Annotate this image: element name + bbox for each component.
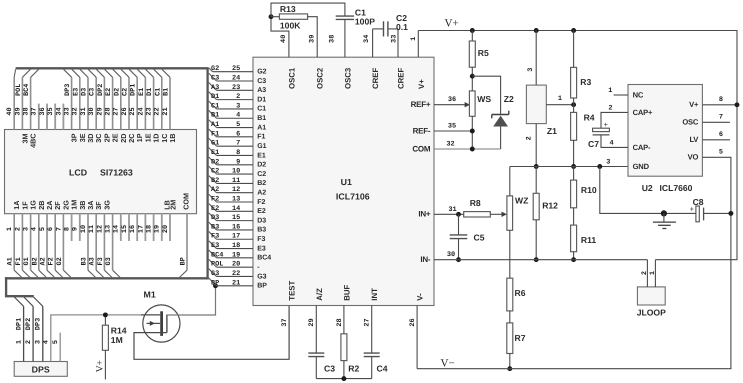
svg-text:37: 37 xyxy=(281,318,289,326)
svg-text:16: 16 xyxy=(129,225,137,233)
wire U1 pin 24 (C3) xyxy=(209,73,217,81)
svg-text:BP: BP xyxy=(180,257,188,265)
svg-text:R13: R13 xyxy=(280,4,296,14)
svg-text:OSC3: OSC3 xyxy=(343,67,352,89)
svg-text:29: 29 xyxy=(96,107,104,115)
svg-text:G3: G3 xyxy=(211,270,219,278)
junction ground tee xyxy=(661,210,667,216)
wire U2 NC pin 1 stub xyxy=(614,94,628,96)
junction R14 top xyxy=(103,312,108,317)
svg-text:B2: B2 xyxy=(211,177,219,185)
resistor R2 xyxy=(343,306,345,334)
junction V+ rail R5 xyxy=(470,28,475,33)
svg-text:DPS: DPS xyxy=(32,364,50,374)
svg-text:9: 9 xyxy=(72,227,80,231)
svg-text:DP1: DP1 xyxy=(15,318,23,330)
svg-text:R14: R14 xyxy=(111,325,127,335)
junction V+ rail R3 xyxy=(571,28,576,33)
svg-text:C3: C3 xyxy=(211,75,219,83)
wire U2 LV pin 6 stub xyxy=(702,139,730,141)
LCD top pin 34 wire xyxy=(62,104,64,130)
svg-text:15: 15 xyxy=(121,225,129,233)
wire JLOOP pin 1 xyxy=(654,260,656,287)
junction BP node xyxy=(213,283,218,288)
svg-text:8: 8 xyxy=(64,227,72,231)
svg-text:A2: A2 xyxy=(257,190,266,197)
svg-text:C5: C5 xyxy=(474,233,485,243)
svg-text:F1: F1 xyxy=(211,130,219,138)
wire U1 pin 19 (BC4) xyxy=(209,250,217,258)
svg-text:BP: BP xyxy=(257,283,267,290)
resistor R14 xyxy=(104,315,106,325)
LCD bottom pin 19 wire xyxy=(161,214,163,241)
svg-text:9: 9 xyxy=(236,158,240,166)
svg-text:D2: D2 xyxy=(257,162,266,169)
LCD bottom pin 3 wire xyxy=(30,214,32,271)
wire DPS pin 1 (DP1) xyxy=(14,297,23,306)
svg-text:F2: F2 xyxy=(48,257,56,265)
wire R13 top loop xyxy=(271,3,345,17)
svg-text:BC4: BC4 xyxy=(23,84,31,96)
svg-text:20: 20 xyxy=(232,261,240,269)
LCD bottom pin 7 wire xyxy=(62,214,64,271)
LCD top pin 22 wire xyxy=(161,77,163,129)
wire U2 V+ pin 8 xyxy=(702,104,737,106)
LCD bottom pin 5 wire xyxy=(46,214,48,271)
svg-text:30: 30 xyxy=(447,251,455,259)
wire U2 CAP+ pin 2 xyxy=(601,112,628,128)
svg-text:6: 6 xyxy=(236,130,240,138)
svg-text:4: 4 xyxy=(31,227,39,231)
junction R4 bottom / GND row xyxy=(571,164,576,169)
svg-text:13: 13 xyxy=(105,225,113,233)
svg-text:8: 8 xyxy=(236,149,240,157)
svg-text:31: 31 xyxy=(80,107,88,115)
LCD top pin 26 wire xyxy=(128,77,130,129)
DPS connector xyxy=(14,362,67,377)
capacitor C8 xyxy=(696,206,699,222)
junction V+ rail / U2 pin8 xyxy=(735,102,740,107)
svg-text:F2: F2 xyxy=(257,199,265,206)
svg-text:5: 5 xyxy=(52,340,60,344)
svg-text:37: 37 xyxy=(31,107,39,115)
svg-text:3: 3 xyxy=(236,102,240,110)
wire U1 pin 18 (E3) xyxy=(209,241,217,249)
svg-text:28: 28 xyxy=(105,107,113,115)
svg-text:IN+: IN+ xyxy=(418,210,431,219)
bus: LCD bottom signal bus xyxy=(5,277,209,279)
LCD bottom pin 4 wire xyxy=(38,214,40,271)
svg-text:VO: VO xyxy=(688,153,699,162)
wire IN+ pin 31 xyxy=(434,213,464,215)
svg-text:R11: R11 xyxy=(581,235,597,245)
svg-text:REF+: REF+ xyxy=(411,100,431,109)
svg-text:34: 34 xyxy=(363,35,371,43)
svg-text:38: 38 xyxy=(23,107,31,115)
wire U1 pin 11 (B2) xyxy=(209,176,217,184)
svg-text:7: 7 xyxy=(236,140,240,148)
svg-text:CAP-: CAP- xyxy=(633,143,651,152)
junction R5/WS/Z2 xyxy=(470,74,475,79)
svg-text:23: 23 xyxy=(232,84,240,92)
resistor R13 xyxy=(271,16,279,18)
wire M1 drain to BP xyxy=(167,286,216,315)
power rail V- bottom xyxy=(417,213,731,368)
LCD top pin 28 wire xyxy=(112,77,114,129)
svg-text:F3: F3 xyxy=(97,257,105,265)
svg-text:C1: C1 xyxy=(257,106,266,113)
bus: LCD top signal bus xyxy=(16,67,208,69)
junction C3 R2 C4 xyxy=(341,376,346,381)
junction C8 / VO rail xyxy=(728,211,733,216)
wire U1 A/Z pin 29 xyxy=(315,306,317,354)
wire Z1 pin 1 xyxy=(546,104,573,106)
svg-text:B3: B3 xyxy=(211,223,219,231)
resistor R8 xyxy=(464,212,491,217)
svg-text:CAP+: CAP+ xyxy=(633,108,653,117)
wire DPS pin 5 stub xyxy=(59,333,61,362)
svg-text:Z2: Z2 xyxy=(504,94,514,104)
LCD top pin 40 wire xyxy=(13,77,15,129)
svg-text:21: 21 xyxy=(162,107,170,115)
LCD bottom pin 16 wire xyxy=(136,214,138,241)
svg-text:F2: F2 xyxy=(211,196,219,204)
svg-text:C3: C3 xyxy=(257,78,266,85)
svg-text:C2: C2 xyxy=(122,88,130,96)
svg-text:3: 3 xyxy=(23,227,31,231)
svg-text:R2: R2 xyxy=(348,364,359,374)
svg-text:1: 1 xyxy=(649,271,657,275)
svg-text:D3: D3 xyxy=(81,88,89,96)
svg-text:1B: 1B xyxy=(168,134,177,143)
svg-text:F1: F1 xyxy=(257,134,265,141)
svg-text:WZ: WZ xyxy=(515,196,528,206)
svg-text:39: 39 xyxy=(14,107,22,115)
power rail V+ top xyxy=(418,31,737,260)
svg-text:2M: 2M xyxy=(169,200,178,210)
junction Z1 pin2 / GND row xyxy=(534,164,539,169)
resistor R5 xyxy=(471,31,473,42)
svg-text:100P: 100P xyxy=(355,16,375,26)
svg-text:34: 34 xyxy=(55,107,63,115)
svg-text:V+: V+ xyxy=(96,360,106,372)
svg-text:POL: POL xyxy=(15,84,23,96)
svg-text:38: 38 xyxy=(329,35,337,43)
svg-text:30: 30 xyxy=(88,107,96,115)
svg-text:26: 26 xyxy=(121,107,129,115)
svg-text:1M: 1M xyxy=(111,335,123,345)
junction C5 bottom / IN- row xyxy=(456,257,461,262)
svg-text:E3: E3 xyxy=(257,245,266,252)
wire U1 pin 25 (G2) xyxy=(209,68,213,72)
svg-text:24: 24 xyxy=(232,75,240,83)
capacitor C4 xyxy=(371,306,373,354)
LCD top pin 30 wire xyxy=(95,77,97,129)
wire JLOOP pin 2 xyxy=(646,260,648,287)
svg-text:A1: A1 xyxy=(7,257,15,265)
svg-text:DP1: DP1 xyxy=(130,84,138,96)
LCD bottom pin 1 wire xyxy=(13,214,15,271)
svg-text:A/Z: A/Z xyxy=(315,288,324,301)
svg-text:28: 28 xyxy=(336,318,344,326)
LCD top pin 36 wire xyxy=(46,104,48,130)
svg-text:BP: BP xyxy=(211,279,219,287)
svg-text:35: 35 xyxy=(47,107,55,115)
svg-text:C1: C1 xyxy=(211,102,219,110)
svg-text:+: + xyxy=(604,120,609,129)
svg-text:1: 1 xyxy=(16,340,24,344)
LCD bottom pin 9 wire xyxy=(79,214,81,241)
LCD bottom pin 18 wire xyxy=(153,214,155,241)
svg-text:29: 29 xyxy=(308,318,316,326)
svg-text:BUF: BUF xyxy=(343,284,352,300)
svg-text:E1: E1 xyxy=(257,152,266,159)
LCD top pin 21 wire xyxy=(169,77,171,129)
svg-text:D1: D1 xyxy=(211,93,219,101)
svg-text:C8: C8 xyxy=(693,197,704,207)
svg-text:5: 5 xyxy=(719,149,723,157)
svg-text:V+: V+ xyxy=(689,100,699,109)
wire U1 pin 5 (A1) xyxy=(209,120,217,128)
LCD top pin 38 wire xyxy=(30,77,32,129)
svg-text:40: 40 xyxy=(280,35,288,43)
resistor R11 xyxy=(573,208,575,225)
svg-text:COM: COM xyxy=(412,144,431,153)
LCD top pin 27 wire xyxy=(120,77,122,129)
svg-text:F1: F1 xyxy=(15,257,23,265)
svg-text:A3: A3 xyxy=(89,257,97,265)
svg-text:4BC: 4BC xyxy=(29,134,38,148)
LCD bottom pin 10 wire xyxy=(87,214,89,271)
svg-text:D3: D3 xyxy=(211,214,219,222)
wire COM pin 32 xyxy=(434,148,501,150)
svg-text:C2: C2 xyxy=(257,171,266,178)
svg-text:17: 17 xyxy=(137,225,145,233)
LCD top pin 29 wire xyxy=(103,77,105,129)
svg-text:18: 18 xyxy=(146,225,154,233)
svg-text:INT: INT xyxy=(370,288,379,301)
LCD bottom pin 12 wire xyxy=(103,214,105,271)
resistor R7 xyxy=(509,311,511,323)
LCD bottom pin 8 wire xyxy=(71,214,73,241)
svg-text:C7: C7 xyxy=(588,139,599,149)
svg-text:R12: R12 xyxy=(542,201,558,211)
wire U1 pin 20 (POL) xyxy=(209,259,217,267)
svg-text:21: 21 xyxy=(232,279,240,287)
wire U1 pin 14 (E2) xyxy=(209,204,217,212)
svg-text:11: 11 xyxy=(232,177,240,185)
transistor M1 xyxy=(143,305,180,342)
wire U1 pin 23 (A3) xyxy=(209,83,217,91)
svg-text:F3: F3 xyxy=(211,233,219,241)
svg-text:10: 10 xyxy=(80,225,88,233)
bus: vertical bus to U1 left pins xyxy=(206,67,208,279)
LCD top pin 33 wire xyxy=(71,77,73,129)
LCD bottom pin 14 wire xyxy=(120,214,122,241)
svg-text:33: 33 xyxy=(390,35,398,43)
capacitor C1 100P xyxy=(336,15,354,17)
wire U1 pin 12 (A2) xyxy=(209,185,217,193)
capacitor C2 0.1 xyxy=(372,29,374,57)
svg-text:R10: R10 xyxy=(581,185,597,195)
svg-text:CREF: CREF xyxy=(397,68,406,89)
svg-text:D2: D2 xyxy=(113,88,121,96)
svg-text:6: 6 xyxy=(47,227,55,231)
svg-text:8: 8 xyxy=(719,96,723,104)
wire U1 pin 6 (F1) xyxy=(209,129,217,137)
svg-text:7: 7 xyxy=(719,114,723,122)
LCD top pin 31 wire xyxy=(87,77,89,129)
wire U1 pin 21 (BP) xyxy=(209,278,217,286)
svg-text:39: 39 xyxy=(308,35,316,43)
svg-text:U2: U2 xyxy=(642,183,653,193)
LCD bottom pin 17 wire xyxy=(144,214,146,241)
svg-text:E3: E3 xyxy=(211,242,219,250)
op-amp/IC U1 ICL7106 xyxy=(253,57,434,305)
junction R12 bottom / IN- row xyxy=(534,257,539,262)
junction GND row / C8 branch xyxy=(597,164,602,169)
svg-text:G2: G2 xyxy=(257,69,266,76)
svg-text:2: 2 xyxy=(641,271,649,275)
svg-text:R5: R5 xyxy=(478,48,489,58)
LCD bottom pin 2 wire xyxy=(21,214,23,271)
svg-text:OSC2: OSC2 xyxy=(316,67,325,89)
LCD top pin 23 wire xyxy=(153,77,155,129)
resistor R6 xyxy=(507,278,513,311)
svg-text:R8: R8 xyxy=(470,198,481,208)
svg-text:B1: B1 xyxy=(211,112,219,120)
svg-text:DP3: DP3 xyxy=(64,84,72,96)
svg-text:R6: R6 xyxy=(515,288,526,298)
svg-text:1: 1 xyxy=(608,87,612,95)
wire U2 VO pin 5 xyxy=(702,157,731,213)
junction V+ rail Z1 xyxy=(534,28,539,33)
svg-text:LCD: LCD xyxy=(69,168,87,178)
svg-text:22: 22 xyxy=(232,270,240,278)
wire U1 V- pin 26 xyxy=(416,306,418,369)
svg-text:R4: R4 xyxy=(584,112,595,122)
wire IN- pin 30 row xyxy=(434,259,647,261)
svg-text:11: 11 xyxy=(88,225,96,233)
svg-text:DP3: DP3 xyxy=(35,318,43,330)
junction IN+ / C5 xyxy=(456,212,461,217)
svg-text:2: 2 xyxy=(25,340,33,344)
resistor R10 xyxy=(573,167,575,181)
svg-text:U1: U1 xyxy=(341,177,352,187)
wire U1 pin 22 (G3) xyxy=(209,269,217,277)
svg-text:BC4: BC4 xyxy=(211,251,223,259)
junction R13 left node xyxy=(269,14,274,19)
svg-text:14: 14 xyxy=(113,225,121,233)
wire U1 pin 4 (B1) xyxy=(209,110,217,118)
zener diode Z2 xyxy=(472,76,500,114)
svg-text:36: 36 xyxy=(39,107,47,115)
svg-text:5: 5 xyxy=(236,121,240,129)
svg-text:31: 31 xyxy=(448,206,456,214)
wire C3/R2/C4 node xyxy=(316,378,371,380)
svg-text:G1: G1 xyxy=(211,140,219,148)
wire WS bottom to REF-/COM xyxy=(471,116,473,149)
wire U1 OSC1 pin 40 xyxy=(271,17,289,58)
wire WZ top to GND row xyxy=(509,167,511,196)
svg-text:R7: R7 xyxy=(515,333,526,343)
svg-text:27: 27 xyxy=(113,107,121,115)
junction REF- xyxy=(470,129,475,134)
connector JLOOP xyxy=(637,287,665,305)
wire GND branch to C8 xyxy=(600,167,696,214)
svg-text:A2: A2 xyxy=(211,186,219,194)
svg-text:G1: G1 xyxy=(257,143,266,150)
svg-text:SI71263: SI71263 xyxy=(100,168,133,178)
svg-text:20: 20 xyxy=(162,225,170,233)
svg-text:2: 2 xyxy=(608,105,612,113)
svg-text:14: 14 xyxy=(232,205,240,213)
svg-text:BC4: BC4 xyxy=(257,255,271,262)
LCD top pin 39 wire xyxy=(21,77,23,129)
LCD bottom pin 13 wire xyxy=(112,214,114,271)
svg-text:4: 4 xyxy=(43,340,51,344)
svg-text:B1: B1 xyxy=(163,88,171,96)
op-amp/IC U2 ICL7660 xyxy=(628,85,702,177)
svg-text:15: 15 xyxy=(232,214,240,222)
svg-text:3: 3 xyxy=(35,340,43,344)
svg-text:1: 1 xyxy=(410,37,418,41)
resistor R4 xyxy=(573,105,575,113)
svg-text:26: 26 xyxy=(409,318,417,326)
LCD top pin 35 wire xyxy=(54,104,56,130)
potentiometer WZ xyxy=(507,196,513,230)
svg-text:IN-: IN- xyxy=(420,255,431,264)
svg-text:G3: G3 xyxy=(257,273,266,280)
voltage reference Z1 xyxy=(526,85,546,124)
capacitor C3 xyxy=(308,352,324,354)
LCD bottom pin 15 wire xyxy=(128,214,130,241)
wire REF+ pin 36 xyxy=(434,104,465,106)
resistor R12 xyxy=(535,167,537,194)
svg-text:5: 5 xyxy=(39,227,47,231)
svg-text:V−: V− xyxy=(441,357,455,369)
junction Z1 pin1 / R3 R4 xyxy=(571,102,576,107)
svg-text:22: 22 xyxy=(154,107,162,115)
svg-text:B3: B3 xyxy=(257,227,266,234)
wire U1 pin 7 (G1) xyxy=(209,138,217,146)
svg-text:19: 19 xyxy=(154,225,162,233)
svg-text:G2: G2 xyxy=(56,257,64,265)
resistor R3 xyxy=(573,31,575,68)
svg-text:CREF: CREF xyxy=(371,68,380,89)
svg-text:3G: 3G xyxy=(102,200,111,210)
svg-text:WS: WS xyxy=(477,94,491,104)
svg-text:REF-: REF- xyxy=(413,126,431,135)
svg-text:A2: A2 xyxy=(40,257,48,265)
svg-text:V+: V+ xyxy=(445,18,459,30)
wire Z1 pin 2 xyxy=(535,124,537,167)
LCD top pin 37 wire xyxy=(38,104,40,130)
svg-text:D2: D2 xyxy=(211,158,219,166)
svg-text:E3: E3 xyxy=(72,88,80,96)
wire U1 pin 10 (C2) xyxy=(209,166,217,174)
svg-text:B2: B2 xyxy=(257,180,266,187)
svg-text:V+: V+ xyxy=(417,79,426,89)
svg-text:25: 25 xyxy=(232,65,240,73)
svg-text:33: 33 xyxy=(64,107,72,115)
svg-text:25: 25 xyxy=(129,107,137,115)
wire M1 source to TEST xyxy=(134,306,289,360)
svg-text:A1: A1 xyxy=(211,121,219,129)
wire Z1 pin 3 xyxy=(535,31,537,86)
svg-text:DP2: DP2 xyxy=(97,84,105,96)
wire REF- pin 35 xyxy=(434,130,472,132)
